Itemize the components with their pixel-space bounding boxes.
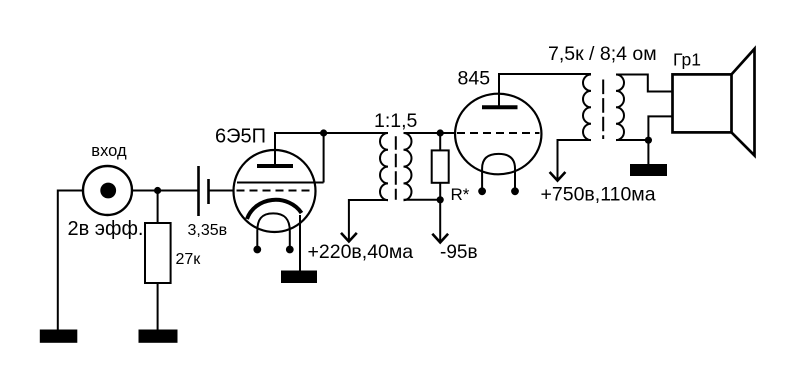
wire input down to ground	[57, 190, 59, 331]
tube V2 grid (dashed)	[457, 132, 540, 134]
svg-text:1:1,5: 1:1,5	[374, 110, 418, 132]
wire anode top rail to transformer T2	[498, 73, 591, 75]
tube V2 845 envelope	[455, 94, 541, 175]
ground left input	[41, 331, 77, 342]
wire junction down to resistor	[157, 191, 159, 224]
wire T1 secondary top to 845 grid	[404, 132, 456, 134]
wire node to ground	[647, 140, 649, 165]
pin filament 1	[478, 187, 486, 195]
wire bias down	[439, 200, 441, 242]
arrow +220v supply	[341, 233, 357, 242]
svg-text:Гр1: Гр1	[673, 50, 701, 70]
tube V1 screen grid line	[237, 182, 324, 184]
node junction input	[154, 187, 161, 194]
svg-text:+750в,110ма: +750в,110ма	[541, 184, 656, 206]
tube V2 filament arch	[482, 154, 515, 191]
transformer T1 secondary coil	[404, 133, 412, 200]
wire T1 primary bottom	[349, 200, 388, 241]
svg-text:-95в: -95в	[440, 242, 478, 263]
svg-text:7,5к / 8;4 ом: 7,5к / 8;4 ом	[548, 43, 657, 65]
node T1 secondary top	[437, 129, 444, 136]
wire T2 secondary bottom to speaker	[616, 116, 673, 140]
node plate/screen junction	[320, 129, 327, 136]
wire screen-to-plate tie	[323, 133, 325, 183]
wire T2 primary bottom	[558, 140, 592, 180]
pin heater 1	[253, 246, 261, 254]
svg-text:R*: R*	[451, 185, 470, 204]
pin heater 2	[286, 246, 294, 254]
wire T1 secondary bottom	[404, 199, 441, 201]
svg-text:845: 845	[458, 68, 491, 90]
speaker Gr1 body	[673, 74, 732, 132]
ground under T2	[631, 165, 666, 175]
svg-text:3,35в: 3,35в	[188, 222, 228, 239]
tube V1 heater arch	[257, 213, 290, 249]
tube V1 control grid (dashed)	[237, 190, 314, 192]
arrow -95v bias	[432, 234, 448, 243]
wire capacitor to tube grid	[210, 190, 234, 192]
transformer T1 primary coil	[380, 133, 388, 200]
svg-text:27к: 27к	[176, 251, 202, 268]
wire R* bottom	[439, 183, 441, 200]
node T1 secondary bottom	[437, 196, 444, 203]
wire anode lead up	[498, 74, 500, 107]
tube V1 anode bar	[257, 164, 293, 168]
arrow +750v supply	[550, 172, 566, 181]
resistor R*	[432, 150, 449, 182]
wire cathode to ground	[299, 215, 301, 272]
svg-text:вход: вход	[91, 142, 127, 160]
svg-text:2в эфф.: 2в эфф.	[68, 218, 144, 240]
capacitor C1 right plate	[207, 179, 210, 204]
wire anode top rail to transformer T1	[274, 132, 388, 134]
tube V1 6E5P envelope	[234, 150, 316, 232]
tube V2 anode bar	[482, 105, 518, 109]
wire input left stub	[58, 190, 84, 192]
ground under resistor	[140, 331, 177, 342]
resistor R 27k	[145, 223, 171, 283]
capacitor C1 3,35v left plate	[197, 166, 200, 216]
connector XS1 input jack	[83, 166, 132, 215]
wire resistor to ground	[157, 283, 159, 331]
speaker Gr1 horn	[732, 49, 755, 156]
transformer T2 primary coil	[583, 75, 591, 141]
svg-text:6Э5П: 6Э5П	[215, 126, 266, 148]
pin filament 2	[511, 187, 519, 195]
tube V1 cathode arc	[247, 200, 302, 219]
svg-text:+220в,40ма: +220в,40ма	[308, 241, 414, 263]
wire anode lead up	[274, 133, 276, 166]
wire node to resistor R*	[439, 133, 441, 150]
transformer T1 core (dashed)	[395, 136, 397, 200]
wire T2 secondary top to speaker	[616, 75, 673, 92]
node secondary bottom	[645, 137, 652, 144]
transformer T2 core (dashed)	[602, 80, 604, 140]
ground under tube V1	[282, 272, 316, 283]
transformer T2 secondary coil	[616, 75, 624, 141]
wire connector to capacitor	[132, 190, 198, 192]
